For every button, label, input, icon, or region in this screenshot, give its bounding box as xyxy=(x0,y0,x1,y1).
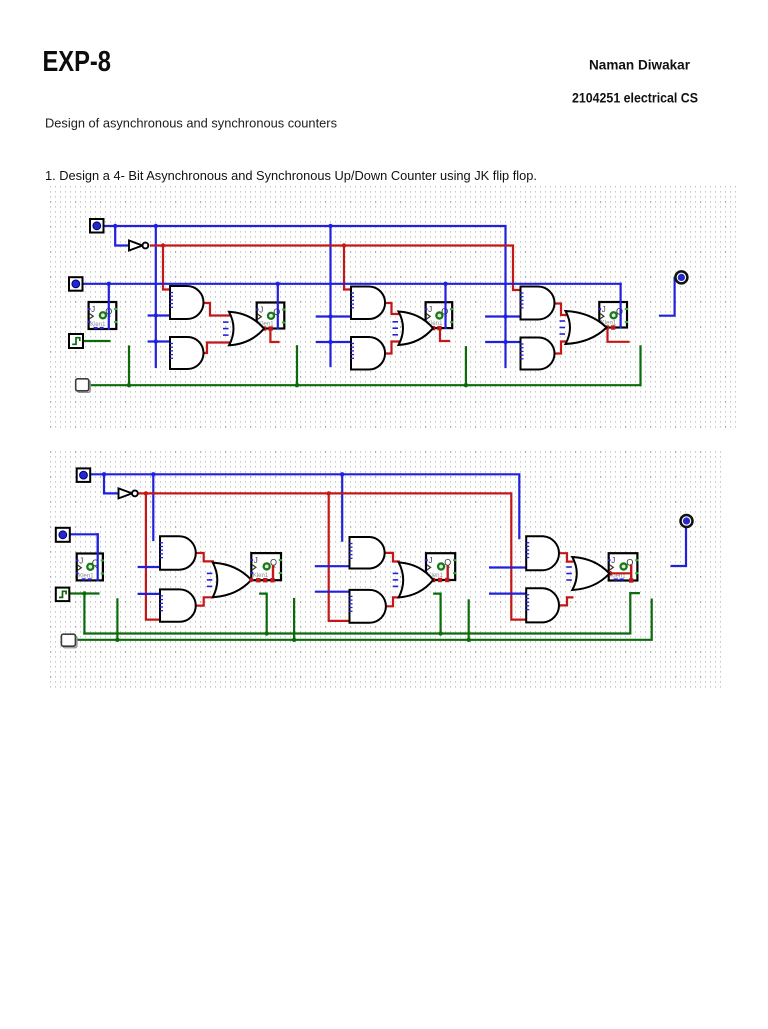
AND gate B2 xyxy=(160,589,196,621)
wire clock CLK2 output xyxy=(69,592,98,594)
junction clock output xyxy=(82,591,86,595)
junction green bus2 col2 xyxy=(467,638,471,642)
wire blue feed to upper AND input (bottom) xyxy=(316,565,350,567)
junction OR O4 output at FF5 xyxy=(249,578,253,582)
junction bus A / column-2 distribution xyxy=(328,224,332,228)
wire AND B2 output to OR O4 xyxy=(196,597,213,605)
svg-text:Design of asynchronous and syn: Design of asynchronous and synchronous c… xyxy=(45,116,337,131)
wire red drop to AND A1 xyxy=(163,246,170,290)
AND gate A4 xyxy=(351,337,386,370)
AND gate A1 xyxy=(170,286,204,319)
wire green riser col0 xyxy=(128,347,130,386)
grid bottom circuit xyxy=(48,448,724,691)
wire red stub under FF1 xyxy=(270,329,278,343)
wire AND B1 output to OR O4 xyxy=(196,553,213,561)
wire column-2 blue distribution xyxy=(329,226,331,366)
wire clock CLK1 output xyxy=(83,340,109,342)
wire blue bus 2 from pin P2 xyxy=(82,283,621,285)
junction feed/distribution xyxy=(328,314,332,318)
junction bus2 / FF0 drop xyxy=(107,282,111,286)
wire blue feed to upper AND input (bottom) xyxy=(490,566,526,568)
wire drop to inverter U2 xyxy=(104,474,119,493)
wire AND B4 output to OR O5 xyxy=(386,597,399,606)
output pin Q3 xyxy=(675,271,687,283)
wire blue feed to upper AND input xyxy=(317,315,351,317)
OR gate O1 xyxy=(223,312,264,346)
junction bottom bus A col1 xyxy=(151,472,155,476)
svg-text:Naman Diwakar: Naman Diwakar xyxy=(589,57,691,73)
wire AND B5 output to OR O6 xyxy=(560,553,572,561)
wire green riser col2 bus1 xyxy=(434,594,440,634)
junction bus A / column-1 distribution xyxy=(154,224,158,228)
wire bottom red bus B xyxy=(140,493,527,619)
svg-text:2104251 electrical CS: 2104251 electrical CS xyxy=(572,90,698,106)
junction green bus2 col1 xyxy=(292,638,296,642)
output pin Q3 (bottom) xyxy=(681,515,693,527)
clock CLK2 xyxy=(56,588,70,602)
svg-text:J: J xyxy=(602,305,606,314)
junction feed/distribution xyxy=(328,340,332,344)
wire bottom column-1 blue distribution xyxy=(152,474,154,540)
svg-text:EXP-8: EXP-8 xyxy=(43,46,112,78)
junction feed/distribution xyxy=(503,314,507,318)
wire drop to inverter U1 input xyxy=(115,226,129,246)
wire drop through flip-flop FF2 xyxy=(444,284,446,328)
svg-text:J: J xyxy=(428,305,432,314)
wire green bus 2 from probe S2 xyxy=(76,600,652,640)
svg-text:J: J xyxy=(79,557,83,566)
wire red bus B from inverter U1 output xyxy=(151,246,521,291)
wire blue feed to lower AND input (bottom) xyxy=(490,592,526,594)
svg-text:Klen1: Klen1 xyxy=(78,573,94,579)
wire AND A1 output to OR O1 xyxy=(203,303,229,316)
clock CLK1 xyxy=(69,334,83,348)
wire green riser col1 xyxy=(296,346,298,385)
wire blue feed to upper AND input (bottom) xyxy=(139,566,160,568)
AND gate B1 xyxy=(160,536,196,569)
junction green bus col2 xyxy=(464,383,468,387)
wire blue feed to lower AND input (bottom) xyxy=(316,591,350,593)
wire to output pin Q3 xyxy=(660,278,675,316)
wire blue feed to lower AND input xyxy=(486,341,520,343)
wire AND A5 output to OR O3 xyxy=(555,304,566,316)
junction green bus1 col2 xyxy=(438,631,442,635)
wire blue feed to upper AND input xyxy=(149,314,170,316)
JK flip-flop FF5 xyxy=(250,553,282,582)
OR gate O6 xyxy=(566,557,609,590)
JK flip-flop FF1 xyxy=(256,303,286,331)
wire drop through flip-flop FF3 xyxy=(619,284,621,328)
wire red stub under FF2 xyxy=(440,328,449,341)
JK flip-flop FF2 xyxy=(424,302,453,330)
wire red drop to AND B2 xyxy=(146,493,161,619)
wire drop through flip-flop FF0 xyxy=(108,284,110,329)
wire green riser col1 bus2 xyxy=(293,599,295,640)
junction green bus col1 xyxy=(295,383,299,387)
inverter U2 xyxy=(119,488,138,498)
AND gate A2 xyxy=(170,337,204,369)
OR gate O4 xyxy=(207,563,252,598)
junction feed/distribution xyxy=(503,340,507,344)
wire green bus 1 xyxy=(84,593,638,633)
junction bottom bus A / inverter drop xyxy=(102,472,106,476)
junction green bus col0 xyxy=(127,383,131,387)
svg-text:J: J xyxy=(611,556,615,565)
wire AND A2 output to OR O1 xyxy=(203,343,229,354)
JK flip-flop FF4 xyxy=(76,554,104,581)
OR gate O5 xyxy=(393,562,434,597)
AND gate B5 xyxy=(526,536,559,570)
AND gate A6 xyxy=(520,338,555,370)
svg-text:Klen1: Klen1 xyxy=(90,322,106,328)
svg-text:Klen1: Klen1 xyxy=(610,574,626,580)
junction bottom bus A col2 xyxy=(340,472,344,476)
svg-text:J: J xyxy=(259,306,263,315)
junction red bus B col1 xyxy=(161,243,165,247)
wire green riser col0 bus2 xyxy=(116,599,118,639)
junction feed/distribution xyxy=(154,339,158,343)
JK flip-flop FF6 xyxy=(425,553,456,582)
wire AND A3 output to OR O2 xyxy=(385,303,399,314)
svg-text:1. Design a 4- Bit Asynchronou: 1. Design a 4- Bit Asynchronous and Sync… xyxy=(45,168,537,183)
wire blue feed to lower AND input xyxy=(149,340,170,342)
wire green riser col2 bus2 xyxy=(468,600,470,639)
input pin P1 xyxy=(90,219,104,233)
wire bottom bus A from pin P3 xyxy=(90,474,519,538)
probe square S2 xyxy=(61,634,77,648)
input pin P4 xyxy=(56,528,70,542)
OR gate O2 xyxy=(393,312,434,346)
svg-text:J: J xyxy=(429,556,433,565)
junction bottom red bus col1 xyxy=(144,491,148,495)
wire AND A4 output to OR O2 xyxy=(385,342,399,354)
junction bus A / inverter drop xyxy=(113,224,117,228)
wire AND B3 output to OR O5 xyxy=(386,553,399,562)
probe square S1 xyxy=(76,379,91,393)
wire red drop to AND A3 xyxy=(344,246,351,290)
junction green bus2 col0 xyxy=(115,638,119,642)
wire green riser col2 xyxy=(465,347,467,385)
wire red drop to AND B4 xyxy=(329,493,351,621)
junction bus2 / FF1 drop xyxy=(276,282,280,286)
AND gate B3 xyxy=(349,537,385,569)
junction bus2 / FF2 drop xyxy=(443,282,447,286)
OR gate O3 xyxy=(560,311,607,344)
wire AND A6 output to OR O3 xyxy=(555,342,566,354)
grid top circuit xyxy=(48,186,736,428)
junction feed/distribution xyxy=(154,313,158,317)
wire blue feed to lower AND input xyxy=(317,341,351,343)
wire clock down to green bus 1 xyxy=(83,594,85,634)
JK flip-flop FF7 xyxy=(608,553,639,583)
JK flip-flop FF3 xyxy=(598,302,628,330)
junction bottom red bus col2 xyxy=(327,491,331,495)
wire top bus A from pin P1 xyxy=(103,226,506,367)
wire drop through flip-flop FF1 xyxy=(277,284,279,329)
junction red bus B col2 xyxy=(342,243,346,247)
wire green riser col1 bus1 xyxy=(260,594,267,634)
wire column-1 blue distribution xyxy=(155,226,157,367)
svg-text:J: J xyxy=(254,556,258,565)
wire bottom column-2 blue distribution xyxy=(341,474,343,540)
JK flip-flop FF0 xyxy=(87,302,117,329)
AND gate A5 xyxy=(520,287,555,320)
inverter U1 xyxy=(129,241,148,251)
input pin P3 xyxy=(77,468,91,482)
wire pin P4 to flip-flop FF4 xyxy=(70,534,98,553)
AND gate A3 xyxy=(351,287,386,320)
wire red stub under FF3 xyxy=(608,328,629,342)
AND gate B6 xyxy=(526,588,559,622)
input pin P2 xyxy=(69,277,83,291)
wire blue feed to lower AND input (bottom) xyxy=(139,593,160,595)
AND gate B4 xyxy=(349,590,386,623)
wire blue feed to upper AND input xyxy=(486,315,520,317)
junction green bus1 col1 xyxy=(265,631,269,635)
wire to output pin Q3 (bottom) xyxy=(672,528,686,567)
wire AND B6 output to OR O6 xyxy=(560,597,572,605)
wire green clock bus xyxy=(89,346,641,385)
svg-text:J: J xyxy=(91,305,95,314)
wire through flip-flop FF4 xyxy=(97,534,99,580)
